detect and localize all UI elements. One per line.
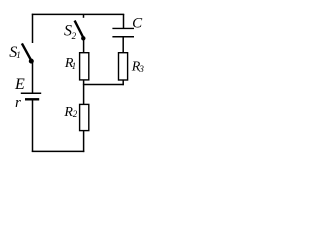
svg-text:1: 1 [72, 61, 77, 71]
svg-text:C: C [132, 15, 143, 31]
svg-text:1: 1 [16, 50, 21, 60]
svg-text:E: E [14, 76, 25, 93]
svg-text:r: r [15, 95, 21, 111]
svg-text:3: 3 [138, 64, 144, 74]
svg-text:2: 2 [72, 31, 77, 41]
svg-text:2: 2 [73, 109, 78, 119]
